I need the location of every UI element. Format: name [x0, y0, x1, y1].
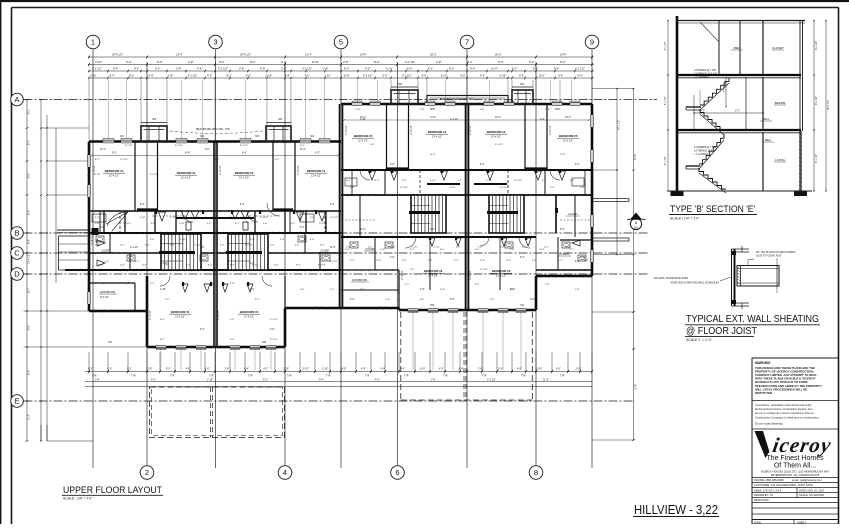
deck divider dashed: [210, 387, 212, 438]
svg-text:24'-1 1/2": 24'-1 1/2": [618, 120, 621, 130]
svg-text:2'-10": 2'-10": [450, 187, 456, 189]
svg-text:2'-8": 2'-8": [200, 247, 205, 249]
grid bubble 8: [529, 466, 543, 480]
svg-text:4'-5": 4'-5": [439, 368, 444, 371]
svg-text:9'-4": 9'-4": [296, 265, 301, 267]
svg-text:BEDROOM #5: BEDROOM #5: [354, 134, 373, 138]
svg-text:4'-5": 4'-5": [105, 261, 110, 263]
svg-text:TYP.: TYP.: [443, 376, 448, 378]
svg-text:2'-10": 2'-10": [312, 60, 319, 64]
svg-text:2'-10": 2'-10": [434, 247, 440, 249]
svg-text:GLUE TO FLOOR JOIST: GLUE TO FLOOR JOIST: [756, 256, 782, 258]
title block divider 2: [752, 428, 839, 430]
svg-text:9'-4": 9'-4": [320, 245, 325, 247]
balcony lines right edge: [593, 198, 629, 200]
svg-text:9'-1": 9'-1": [28, 140, 31, 145]
svg-text:4'-5": 4'-5": [342, 368, 347, 371]
section: interior wall mid: [762, 77, 764, 130]
area/date row: [752, 487, 839, 489]
svg-text:BEDROOM #3: BEDROOM #3: [240, 310, 259, 314]
svg-text:5'-2": 5'-2": [200, 329, 205, 331]
svg-text:4'-5": 4'-5": [361, 368, 366, 371]
svg-text:12'-4 1/2": 12'-4 1/2": [311, 175, 321, 178]
scan edge top: [0, 0, 849, 2]
svg-text:TYP.: TYP.: [365, 376, 370, 378]
svg-text:9'-4": 9'-4": [454, 260, 459, 262]
svg-text:3'-1 1/2": 3'-1 1/2": [500, 187, 508, 189]
svg-text:2: 2: [145, 468, 149, 477]
sheating: joist hatch: [738, 267, 741, 269]
svg-text:8'-2": 8'-2": [475, 284, 480, 286]
bottom extension lines: [88, 352, 90, 372]
svg-text:5'-2": 5'-2": [330, 289, 335, 291]
svg-text:TYP.: TYP.: [248, 376, 253, 378]
svg-text:6'-0": 6'-0": [390, 164, 395, 166]
svg-text:2'-10": 2'-10": [266, 74, 273, 78]
svg-text:D: D: [14, 270, 20, 279]
svg-text:Do not scale drawings.: Do not scale drawings.: [755, 422, 784, 426]
svg-text:5'-2": 5'-2": [570, 249, 575, 251]
svg-text:iceroy: iceroy: [771, 433, 834, 457]
svg-text:8'-2": 8'-2": [95, 159, 100, 161]
svg-text:5'-2": 5'-2": [295, 245, 300, 247]
bedroom dim line left block: [92, 154, 338, 156]
svg-text:CLOSET: CLOSET: [320, 251, 330, 253]
svg-text:24'-8": 24'-8": [560, 53, 567, 57]
svg-text:12'-4 1/2": 12'-4 1/2": [563, 140, 573, 143]
stairs unit2: [228, 234, 268, 270]
svg-text:6'-0": 6'-0": [260, 67, 265, 71]
svg-text:8'-0": 8'-0": [28, 210, 31, 215]
customer row: [752, 482, 839, 484]
section: stair flight upper A1: [700, 78, 729, 106]
svg-text:11'-6": 11'-6": [376, 260, 382, 262]
section: stair dim vertical: [725, 78, 727, 108]
svg-text:BEDROOM #6: BEDROOM #6: [424, 269, 443, 273]
svg-text:CLOSET: CLOSET: [772, 46, 784, 50]
svg-text:12'-4 1/2": 12'-4 1/2": [244, 316, 254, 319]
svg-text:3'-1 1/2": 3'-1 1/2": [175, 145, 183, 147]
svg-text:6: 6: [395, 468, 399, 477]
section: stair flight upper A2: [700, 109, 724, 130]
svg-text:3'-1 1/2": 3'-1 1/2": [330, 261, 338, 263]
svg-text:6'-0": 6'-0": [530, 299, 535, 301]
svg-text:4'-5": 4'-5": [350, 187, 355, 189]
bath fixtures left band: [96, 236, 104, 242]
svg-text:17'-4 1/2": 17'-4 1/2": [402, 270, 404, 280]
svg-text:X04: X04: [310, 136, 315, 138]
svg-text:2'-8": 2'-8": [263, 223, 268, 225]
svg-text:2'-10": 2'-10": [303, 368, 309, 371]
exterior wall: right block top: [341, 103, 592, 105]
svg-text:9'-4": 9'-4": [554, 67, 559, 71]
bath fixtures right band: [350, 242, 358, 248]
svg-text:6'-0": 6'-0": [440, 249, 445, 251]
svg-text:8'-1 1/8": 8'-1 1/8": [665, 156, 667, 165]
svg-text:5'-2": 5'-2": [383, 74, 388, 78]
svg-text:9'-4": 9'-4": [402, 260, 407, 262]
svg-text:4'-5": 4'-5": [350, 260, 355, 262]
svg-text:4'-5": 4'-5": [475, 249, 480, 251]
deck dashed rect left: [150, 387, 285, 438]
unit divider wall grid5: [339, 104, 341, 308]
stairs unit1: [161, 234, 201, 270]
svg-text:17'-4 1/2": 17'-4 1/2": [92, 235, 94, 245]
section: third floor slab: [677, 129, 801, 131]
svg-text:2'-8": 2'-8": [164, 265, 169, 267]
door swings top band W pairs: [181, 211, 189, 219]
svg-text:9'-2": 9'-2": [315, 152, 320, 155]
center top protrusion: [427, 96, 508, 105]
svg-text:8'-6 1/2": 8'-6 1/2": [100, 296, 109, 299]
svg-text:6'-0": 6'-0": [350, 299, 355, 301]
svg-text:11'-6": 11'-6": [430, 154, 436, 156]
svg-text:BEDROOM #4: BEDROOM #4: [428, 130, 447, 134]
svg-text:9'-4": 9'-4": [558, 74, 563, 78]
exterior wall: left block top: [89, 140, 341, 142]
section: door leaf top floor: [700, 22, 719, 42]
svg-text:8'-2": 8'-2": [129, 74, 134, 78]
svg-text:4'-5": 4'-5": [480, 74, 485, 78]
svg-text:2'-10": 2'-10": [170, 217, 176, 219]
svg-text:5: 5: [339, 38, 343, 47]
window centerlines to top tiers: [108, 80, 110, 139]
svg-text:8'-2": 8'-2": [560, 229, 565, 231]
svg-text:8'-0": 8'-0": [28, 370, 31, 375]
svg-text:8'-2": 8'-2": [250, 60, 256, 64]
svg-text:8'-2": 8'-2": [227, 74, 232, 78]
grid bubble 7: [460, 35, 474, 49]
mid band extra walls right: [351, 170, 353, 195]
svg-text:X05: X05: [398, 84, 403, 86]
bay window unit4: [512, 90, 533, 104]
svg-text:EDGE NAIL AS PER ANSI WALL SCH: EDGE NAIL AS PER ANSI WALL SCHEDULES: [671, 282, 720, 285]
stairs unit3: [411, 195, 446, 233]
door swings lower band: [182, 284, 188, 292]
svg-text:5'-2": 5'-2": [165, 299, 170, 301]
stairs unit4: [489, 195, 524, 233]
date/sheet row: [793, 520, 795, 525]
svg-text:9'-1 1/8": 9'-1 1/8": [815, 154, 818, 163]
svg-text:17'-4 1/2": 17'-4 1/2": [218, 310, 220, 320]
grid bubble 1: [86, 35, 100, 49]
svg-text:12'-4 1/2": 12'-4 1/2": [491, 136, 501, 139]
sheating: top plate marks: [732, 251, 750, 253]
left dimension verticals: [26, 100, 28, 442]
grid bubble 6: [391, 466, 405, 480]
svg-text:9'-4": 9'-4": [110, 74, 115, 78]
svg-text:11'-6": 11'-6": [506, 260, 512, 262]
svg-text:4'-5": 4'-5": [375, 378, 380, 381]
svg-text:2'-10": 2'-10": [283, 368, 289, 371]
svg-text:8'-1 1/8": 8'-1 1/8": [665, 96, 667, 105]
svg-text:8'-2": 8'-2": [88, 368, 93, 371]
svg-text:BEDROOM #2: BEDROOM #2: [177, 171, 196, 175]
section: ground line: [668, 190, 812, 192]
svg-text:2'-8": 2'-8": [343, 60, 349, 64]
svg-text:5'-2": 5'-2": [140, 204, 145, 206]
svg-text:9'-4": 9'-4": [540, 249, 545, 251]
svg-text:21'-4": 21'-4": [176, 53, 183, 57]
svg-text:The Finest Homes: The Finest Homes: [766, 455, 824, 462]
svg-text:3'-1 1/2": 3'-1 1/2": [150, 174, 158, 176]
svg-text:2'-10": 2'-10": [207, 378, 213, 381]
svg-text:4'-5": 4'-5": [207, 74, 212, 78]
unit divider wall grid7: [465, 104, 467, 310]
svg-text:3'-1 1/2": 3'-1 1/2": [240, 145, 248, 147]
svg-text:9'-4": 9'-4": [160, 319, 165, 321]
door arcs: [182, 211, 193, 222]
svg-text:2'-10": 2'-10": [147, 368, 153, 371]
sheating: wall studs: [731, 249, 733, 306]
svg-text:3'-1 1/2": 3'-1 1/2": [245, 245, 253, 247]
svg-text:5'-2": 5'-2": [480, 164, 485, 166]
svg-text:4'-5": 4'-5": [370, 144, 375, 146]
svg-text:9: 9: [590, 38, 594, 47]
bay window unit2: [266, 126, 291, 142]
svg-text:X03: X03: [255, 136, 260, 138]
grid bubble 3: [209, 35, 223, 49]
svg-text:X07: X07: [108, 342, 113, 344]
svg-text:2'-8": 2'-8": [390, 257, 395, 259]
mid band extra walls left: [99, 211, 101, 233]
svg-text:2'-8": 2'-8": [575, 289, 580, 291]
closet strip bottom unit2: [273, 208, 293, 210]
svg-text:3'-1 1/2": 3'-1 1/2": [495, 144, 503, 146]
svg-text:2'-10": 2'-10": [560, 154, 566, 156]
svg-text:SCALE : 1/4" = 1'0": SCALE : 1/4" = 1'0": [63, 497, 93, 501]
entry door fan: [106, 212, 128, 231]
svg-text:B: B: [14, 229, 19, 238]
svg-text:3'-1 1/2": 3'-1 1/2": [92, 67, 102, 71]
svg-text:HALL: HALL: [762, 117, 770, 121]
svg-text:4'-5": 4'-5": [532, 260, 537, 262]
svg-text:3'-1 1/2": 3'-1 1/2": [487, 378, 496, 381]
svg-text:AIR GAPS, SOUND BOND PADS: AIR GAPS, SOUND BOND PADS: [654, 277, 689, 280]
svg-text:8'-1 1/8": 8'-1 1/8": [815, 41, 818, 50]
grid bubble D: [11, 268, 24, 281]
svg-text:TYP.: TYP.: [92, 376, 97, 378]
svg-text:X09: X09: [152, 119, 157, 121]
svg-text:17'-4 1/2": 17'-4 1/2": [470, 125, 472, 135]
svg-text:12'-8": 12'-8": [635, 384, 638, 390]
svg-text:2'-8": 2'-8": [580, 187, 585, 189]
left horizontal connectors: [41, 127, 89, 129]
svg-text:2'-10": 2'-10": [480, 260, 486, 262]
interior wall: left band top: [89, 210, 341, 212]
svg-text:6'-0": 6'-0": [310, 239, 315, 241]
svg-text:9'-1": 9'-1": [28, 109, 31, 114]
interior wall: right band rows: [341, 169, 592, 171]
svg-text:12'-4 1/2": 12'-4 1/2": [181, 177, 191, 180]
svg-text:2'-8": 2'-8": [95, 223, 100, 225]
section: interior walls top floor: [718, 21, 720, 76]
svg-text:24'-8": 24'-8": [360, 53, 367, 57]
bedroom dim line right block: [344, 119, 589, 121]
svg-text:9'-4": 9'-4": [230, 217, 235, 219]
svg-text:12'-4 1/2": 12'-4 1/2": [28, 254, 31, 264]
svg-text:8'-2": 8'-2": [235, 223, 240, 225]
svg-text:5'-2": 5'-2": [300, 227, 305, 229]
svg-text:TYP.: TYP.: [521, 376, 526, 378]
svg-text:5'-2": 5'-2": [405, 284, 410, 286]
section: stair flight lower B2: [699, 168, 726, 189]
svg-text:26'-4 1/2": 26'-4 1/2": [827, 100, 830, 110]
svg-text:8: 8: [534, 468, 538, 477]
svg-text:9'-4": 9'-4": [319, 378, 324, 381]
svg-text:26'-2": 26'-2": [430, 53, 437, 57]
closet strip walls unit3: [386, 104, 388, 170]
bath walls right block: [374, 237, 376, 270]
svg-text:11'-6": 11'-6": [510, 289, 516, 291]
grid bubble A: [11, 93, 24, 106]
SE corner wall: [560, 239, 592, 241]
section: stair stringer A1: [700, 83, 729, 110]
svg-text:12'-4 1/2": 12'-4 1/2": [428, 275, 438, 278]
interior wall: C row left: [89, 252, 214, 254]
svg-text:6'-0": 6'-0": [300, 145, 305, 147]
svg-text:3'-1 1/2": 3'-1 1/2": [270, 319, 278, 321]
svg-text:5'-2": 5'-2": [135, 261, 140, 263]
svg-text:TYP.: TYP.: [209, 376, 214, 378]
svg-text:9'-4": 9'-4": [142, 265, 147, 267]
interior wall: B row: [89, 232, 341, 234]
svg-text:3'-1 1/2": 3'-1 1/2": [302, 67, 312, 71]
svg-text:2'-8": 2'-8": [230, 283, 235, 285]
svg-text:WARNING: WARNING: [755, 361, 771, 365]
section: stair flight lower B1: [699, 134, 724, 164]
svg-text:2'-8": 2'-8": [225, 368, 230, 371]
svg-text:9'-2": 9'-2": [112, 152, 117, 155]
svg-text:6'-0": 6'-0": [157, 60, 163, 64]
vertical grid lines: [92, 50, 94, 469]
svg-text:9'-1": 9'-1": [28, 288, 31, 293]
svg-text:2'-8": 2'-8": [281, 67, 286, 71]
svg-text:8'-2": 8'-2": [215, 159, 220, 161]
exterior wall: left side: [88, 142, 91, 312]
svg-text:5'-2": 5'-2": [263, 378, 268, 381]
svg-text:9'-4": 9'-4": [381, 368, 386, 371]
svg-text:8'-2": 8'-2": [344, 67, 349, 71]
sheating: wall plates: [731, 251, 736, 255]
svg-text:9'-4": 9'-4": [470, 67, 475, 71]
svg-text:8'-2": 8'-2": [570, 180, 575, 182]
empty revision rows: [752, 502, 839, 504]
svg-text:8'-2": 8'-2": [374, 60, 380, 64]
hall walls around stairs left: [176, 217, 254, 219]
svg-text:9'-4": 9'-4": [560, 60, 566, 64]
svg-text:2'-10": 2'-10": [486, 180, 492, 182]
svg-text:2'-10": 2'-10": [179, 223, 185, 225]
svg-text:12'-4 1/2": 12'-4 1/2": [239, 177, 249, 180]
section: left wall footing: [671, 191, 684, 196]
svg-text:12'-4": 12'-4": [495, 116, 501, 119]
mid band wall stubs: [103, 211, 105, 233]
svg-text:2'-8": 2'-8": [431, 378, 436, 381]
svg-text:4'-5": 4'-5": [150, 239, 155, 241]
svg-text:3'-1 1/2": 3'-1 1/2": [125, 145, 133, 147]
svg-text:3'-1 1/2": 3'-1 1/2": [218, 67, 228, 71]
title block divider: [752, 400, 839, 402]
svg-text:BEDROOM #1: BEDROOM #1: [105, 169, 124, 173]
svg-text:9'-4": 9'-4": [346, 180, 351, 182]
svg-text:6'-0": 6'-0": [155, 67, 160, 71]
svg-text:6'-0": 6'-0": [556, 368, 561, 371]
svg-text:2'-8": 2'-8": [410, 269, 415, 271]
svg-text:BEDROOM #4: BEDROOM #4: [487, 130, 506, 134]
svg-text:WASHROOM: WASHROOM: [100, 291, 115, 294]
svg-text:TYP.: TYP.: [404, 376, 409, 378]
svg-text:4'-5": 4'-5": [95, 217, 100, 219]
svg-text:21'-4": 21'-4": [305, 53, 312, 57]
svg-text:8'-2": 8'-2": [208, 265, 213, 267]
svg-text:5'-2": 5'-2": [458, 180, 463, 182]
svg-text:9'-4": 9'-4": [281, 60, 287, 64]
svg-text:2'-10": 2'-10": [252, 265, 258, 267]
svg-text:8'-2": 8'-2": [449, 67, 454, 71]
svg-text:11'-6": 11'-6": [344, 74, 350, 78]
closet strip walls unit1: [134, 142, 136, 212]
washroom walls: [89, 282, 135, 284]
svg-text:17'-4 1/2": 17'-4 1/2": [346, 125, 348, 135]
section: second floor slab: [677, 74, 801, 76]
svg-text:4'-5": 4'-5": [360, 289, 365, 291]
svg-text:9'-4": 9'-4": [459, 368, 464, 371]
svg-text:11'-6": 11'-6": [420, 368, 426, 371]
svg-text:9'-4": 9'-4": [540, 119, 545, 121]
sheating: end cap and arrows: [776, 266, 778, 287]
svg-text:5'-2": 5'-2": [255, 299, 260, 301]
phone row: [752, 477, 839, 479]
svg-text:12'-4": 12'-4": [430, 116, 436, 119]
svg-text:2'-10": 2'-10": [360, 119, 366, 121]
svg-text:26'-2": 26'-2": [495, 53, 502, 57]
svg-text:3'-1 1/2": 3'-1 1/2": [363, 74, 373, 78]
svg-text:2'-10": 2'-10": [98, 265, 104, 267]
svg-text:4'-5": 4'-5": [300, 289, 305, 291]
horizontal grid lines: [24, 99, 658, 101]
svg-text:CLOSET: CLOSET: [365, 248, 375, 251]
svg-text:9'-4": 9'-4": [244, 368, 249, 371]
svg-text:2: 2: [635, 221, 637, 225]
svg-text:2'-8": 2'-8": [323, 67, 328, 71]
svg-text:WASHROOM: WASHROOM: [352, 279, 367, 282]
exterior wall: block1 lower left: [146, 276, 149, 347]
section: right wall upper: [799, 21, 801, 132]
door jamb blocks: [155, 210, 157, 214]
window sill protrusions bottom: [156, 348, 166, 350]
right dim connectors: [592, 88, 634, 90]
svg-text:8'-2": 8'-2": [151, 223, 156, 225]
svg-text:17'-4 1/2": 17'-4 1/2": [150, 310, 152, 320]
svg-text:8'-2": 8'-2": [240, 204, 245, 206]
grid bubble E: [11, 395, 24, 408]
svg-text:UPPER FLOOR LAYOUT: UPPER FLOOR LAYOUT: [63, 485, 162, 495]
svg-text:BEAD BOARD APPLY BAL. STD: BEAD BOARD APPLY BAL. STD: [440, 98, 474, 101]
svg-text:2'-10": 2'-10": [140, 217, 146, 219]
svg-text:3'-1 1/2": 3'-1 1/2": [450, 119, 459, 121]
section: right dim cols: [813, 21, 815, 192]
svg-text:BEDROOM #6: BEDROOM #6: [492, 269, 511, 273]
svg-text:11'-6": 11'-6": [360, 229, 366, 231]
svg-text:17'-4 1/2": 17'-4 1/2": [470, 270, 472, 280]
svg-text:SCALE 1" = 1'-0": SCALE 1" = 1'-0": [686, 338, 713, 342]
windows side walls: [87, 155, 91, 167]
svg-text:+ 1 LANDING: + 1 LANDING: [694, 153, 709, 156]
svg-text:3/4" T&G PLYWOOD SUB-FLOORING: 3/4" T&G PLYWOOD SUB-FLOORING: [756, 252, 796, 254]
svg-text:11'-6": 11'-6": [498, 368, 504, 371]
svg-text:8'-2": 8'-2": [160, 339, 165, 341]
